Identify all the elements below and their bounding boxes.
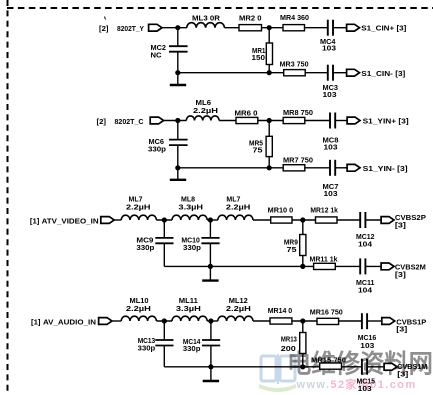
wire MR16 to MC16 <box>339 320 362 322</box>
inductor ML12 2.2uH <box>218 296 253 321</box>
svg-text:S1_CIN- [3]: S1_CIN- [3] <box>361 69 405 78</box>
capacitor MC14 330p <box>183 337 220 353</box>
inductor ML7b 2.2uH <box>218 195 253 220</box>
wire MC7 to output <box>335 167 347 169</box>
output connector S1_CIN+ <box>347 24 407 33</box>
wire input to coil <box>162 27 187 29</box>
dashed border top <box>7 7 433 9</box>
junction rail row2 left <box>175 165 180 170</box>
svg-text:3.3µH: 3.3µH <box>179 203 204 212</box>
resistor MR14 0 <box>268 306 293 324</box>
input connector 8202T_Y <box>149 24 162 31</box>
lower rail row4 <box>164 366 320 368</box>
svg-text:103: 103 <box>360 341 374 350</box>
resistor MR11 1k <box>310 254 338 269</box>
junction MC13 top <box>162 318 167 323</box>
wire MC11 to output <box>365 265 381 267</box>
junction MR5 bottom <box>267 165 272 170</box>
svg-text:MR8 750: MR8 750 <box>283 108 313 117</box>
resistor MR12 1k <box>310 206 338 224</box>
wire MC14 to rail row4 <box>210 346 212 367</box>
resistor MR4 360 <box>280 13 309 31</box>
junction top of MR5 <box>267 118 272 123</box>
node junction top of MR1 <box>267 25 272 30</box>
capacitor MC8 103 <box>323 113 339 152</box>
wire MC12 to output <box>365 219 381 221</box>
wire MC4 to output <box>333 27 347 29</box>
capacitor MC9 330p <box>136 235 173 252</box>
svg-text:MR4 360: MR4 360 <box>280 13 309 22</box>
resistor MR7 750 <box>283 155 313 171</box>
junction row2 input <box>175 118 180 123</box>
wire MR2 to MR4 <box>262 27 284 29</box>
inductor ML11 3.3uH <box>172 296 207 321</box>
output connector CVBS2M <box>381 262 426 279</box>
ground row4 <box>203 367 219 381</box>
svg-text:[3]: [3] <box>396 325 408 334</box>
svg-text:103: 103 <box>322 43 336 52</box>
resistor MR3 750 <box>280 59 309 75</box>
junction rail row4 <box>208 364 213 369</box>
wire down to MR1 <box>268 28 270 43</box>
svg-text:MR14 0: MR14 0 <box>268 306 293 315</box>
wire input to coil1 row4 <box>112 320 121 322</box>
wire down to MR5 <box>268 121 270 137</box>
svg-text:S1_YIN- [3]: S1_YIN- [3] <box>363 164 408 173</box>
svg-text:330p: 330p <box>148 144 167 153</box>
wire coil to MR6 <box>219 120 236 122</box>
output connector CVBS1P <box>382 317 427 333</box>
svg-text:75: 75 <box>287 245 297 254</box>
wire coil2 to coil3 row4 <box>207 320 218 322</box>
svg-text:330p: 330p <box>183 243 202 252</box>
wire down to MR9 <box>302 220 304 235</box>
svg-text:NC: NC <box>151 50 162 59</box>
svg-text:MR6 0: MR6 0 <box>235 109 258 118</box>
svg-text:75: 75 <box>253 145 263 154</box>
junction top of MR13 <box>300 318 305 323</box>
wire down to MR13 <box>302 321 304 333</box>
input connector 8202T_C <box>150 117 163 124</box>
svg-text:AV_AUDIO_IN: AV_AUDIO_IN <box>43 317 96 326</box>
junction MR13 bottom <box>300 364 305 369</box>
svg-text:103: 103 <box>358 384 372 393</box>
wire coil3 to MR14 <box>253 320 270 322</box>
wire MC6 to rail row2 <box>177 145 179 168</box>
wire MC9 to rail row3 <box>163 243 165 266</box>
svg-text:330p: 330p <box>136 243 155 252</box>
node ATV_VIDEO_IN input label <box>30 217 99 226</box>
wire MR7 to MC7 <box>305 167 330 169</box>
wire junction to MC6 <box>177 121 179 140</box>
ground row2 <box>170 168 186 180</box>
wire MR11 to MC11 <box>335 265 360 267</box>
wire coil1 to coil2 row4 <box>156 320 172 322</box>
inductor ML7 2.2uH <box>121 195 156 220</box>
svg-text:103: 103 <box>323 90 337 99</box>
junction MC9 top <box>162 217 167 222</box>
svg-text:MR16 750: MR16 750 <box>310 307 343 316</box>
node 8202T_C input label <box>97 117 144 126</box>
capacitor MC3 103 <box>323 65 339 99</box>
svg-text:103: 103 <box>324 142 338 151</box>
resistor MR9 75 <box>284 235 306 256</box>
output connector CVBS1M <box>384 362 427 379</box>
wire MC3 to output <box>333 72 347 74</box>
node A junction <box>175 25 180 30</box>
wire coil2 to coil3 <box>207 219 218 221</box>
junction MR9 bottom <box>300 264 305 269</box>
svg-text:MR11 1k: MR11 1k <box>310 254 338 263</box>
svg-text:ATV_VIDEO_IN: ATV_VIDEO_IN <box>42 217 99 226</box>
svg-text:MR2 0: MR2 0 <box>239 14 262 23</box>
resistor MR2 0 <box>239 14 262 31</box>
junction rail row3 <box>208 264 213 269</box>
resistor MR10 0 <box>268 206 294 224</box>
ground row1 <box>170 73 186 85</box>
wire MC15 to output <box>367 366 384 368</box>
wire MR3 to MC3 <box>305 72 327 74</box>
output connector S1_YIN- <box>347 164 408 173</box>
wire down to MC9 <box>163 220 165 238</box>
wire MC16 to output <box>367 320 382 322</box>
svg-text:103: 103 <box>324 189 338 198</box>
node AV_AUDIO_IN input label <box>31 317 96 326</box>
capacitor MC10 330p <box>181 235 219 252</box>
svg-text:2.2µH: 2.2µH <box>193 106 218 115</box>
wire MR5 to rail <box>268 157 270 168</box>
svg-text:104: 104 <box>358 239 372 248</box>
resistor MR5 75 <box>249 136 272 156</box>
junction lower-left row1 <box>175 70 180 75</box>
dashed border left <box>7 0 9 395</box>
svg-text:MR10 0: MR10 0 <box>268 206 294 215</box>
tick mark <box>105 17 106 20</box>
junction top of MR9 <box>300 217 305 222</box>
svg-text:[3]: [3] <box>397 369 409 378</box>
lower rail row2 <box>178 167 284 169</box>
resistor MR1 150 <box>252 43 273 65</box>
wire coil to MR2 <box>224 27 239 29</box>
wire MR8 to MC8 <box>305 120 330 122</box>
wire coil3 to MR10 <box>253 219 271 221</box>
wire down to MC13 <box>163 321 165 340</box>
svg-text:2.2µH: 2.2µH <box>226 203 251 212</box>
wire MR10 to MR12 <box>292 219 316 221</box>
capacitor MC12 104 <box>356 212 375 248</box>
ground row3 <box>202 266 218 280</box>
wire down to MC10 <box>209 220 211 238</box>
svg-text:[1]: [1] <box>30 217 40 226</box>
resistor MR16 750 <box>310 307 343 324</box>
svg-text:2.2µH: 2.2µH <box>126 203 151 212</box>
wire junction down to MC2 <box>177 28 179 47</box>
svg-text:2.2µH: 2.2µH <box>226 304 251 313</box>
svg-text:[3]: [3] <box>395 270 407 279</box>
watermark book logo <box>259 354 296 392</box>
svg-text:200: 200 <box>281 344 296 353</box>
capacitor MC13 330p <box>138 336 174 352</box>
svg-text:ML3 0R: ML3 0R <box>192 14 221 23</box>
inductor ML3 0R <box>187 14 225 28</box>
wire lower rail row1 <box>178 72 284 74</box>
capacitor MC4 103 <box>320 20 336 53</box>
wire MR13 to rail <box>302 354 304 367</box>
wire MR14 to MR16 <box>292 320 317 322</box>
svg-text:[2]: [2] <box>99 24 109 33</box>
wire MR9 to rail <box>302 256 304 267</box>
wire MC10 to rail row3 <box>209 243 211 266</box>
svg-text:MR7 750: MR7 750 <box>283 155 313 164</box>
capacitor MC6 330p <box>148 137 188 154</box>
capacitor MC15 103 <box>357 359 376 393</box>
capacitor MC7 103 <box>323 160 339 198</box>
svg-text:S1_YIN+ [3]: S1_YIN+ [3] <box>363 117 409 126</box>
inductor ML10 2.2uH <box>121 296 156 321</box>
resistor MR13 200 <box>281 333 306 354</box>
svg-text:104: 104 <box>358 285 372 294</box>
capacitor MC2 <box>151 43 188 59</box>
wire MC8 to output <box>335 120 347 122</box>
svg-text:[1]: [1] <box>31 317 41 326</box>
svg-text:S1_CIN+ [3]: S1_CIN+ [3] <box>361 24 406 33</box>
inductor ML8 3.3uH <box>172 195 207 220</box>
wire MR4 to MC4 <box>305 27 328 29</box>
capacitor MC16 103 <box>358 313 377 350</box>
svg-text:3.3µH: 3.3µH <box>176 304 201 313</box>
output connector S1_YIN+ <box>347 117 409 126</box>
wire input to coil1 row3 <box>114 219 121 221</box>
node 8202T_Y input label <box>99 24 144 33</box>
wire MC13 to rail row4 <box>163 346 165 367</box>
wire MC2 to lower rail <box>177 52 179 73</box>
output connector S1_CIN- <box>347 69 406 78</box>
resistor MR15 750 <box>311 356 346 370</box>
junction MC14 top <box>208 318 213 323</box>
svg-text:MR13: MR13 <box>281 334 297 343</box>
svg-text:330p: 330p <box>138 344 156 353</box>
wire MR15 to MC15 <box>342 366 362 368</box>
svg-text:8202T_Y: 8202T_Y <box>117 24 144 33</box>
junction MC10 top <box>208 217 213 222</box>
svg-text:MR3 750: MR3 750 <box>280 59 309 68</box>
input connector AV_AUDIO_IN <box>99 318 112 325</box>
resistor MR8 750 <box>283 108 313 124</box>
output connector CVBS2P <box>381 213 426 230</box>
svg-text:150: 150 <box>252 53 266 62</box>
resistor MR6 0 <box>235 109 258 124</box>
capacitor MC11 104 <box>356 258 375 294</box>
junction MR1 bottom <box>267 70 272 75</box>
wire MR6 to MR8 <box>258 120 283 122</box>
svg-text:[2]: [2] <box>97 117 107 126</box>
svg-text:2.2µH: 2.2µH <box>126 304 151 313</box>
wire MR1 to rail <box>268 65 270 73</box>
wire coil1 to coil2 <box>156 219 172 221</box>
inductor ML6 2.2uH <box>186 98 219 120</box>
svg-text:[3]: [3] <box>395 220 407 229</box>
svg-text:330p: 330p <box>183 344 201 353</box>
wire down to MC14 <box>210 321 212 340</box>
lower rail row3 <box>164 265 314 267</box>
wire MR12 to MC12 <box>337 219 360 221</box>
svg-text:8202T_C: 8202T_C <box>115 117 144 126</box>
input connector ATV_VIDEO_IN <box>101 217 114 224</box>
svg-text:MR12 1k: MR12 1k <box>310 206 338 215</box>
wire input to coil row2 <box>164 120 187 122</box>
